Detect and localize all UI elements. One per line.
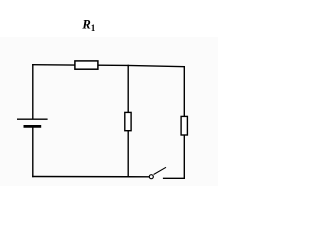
wire: middle branch, resistor down to bottom node — [127, 131, 129, 178]
wire: middle branch, top node down to resistor — [127, 65, 129, 113]
battery positive plate (long) — [17, 118, 48, 120]
battery negative plate (short thick) — [24, 125, 42, 128]
wire: left, battery down to bottom-left corner — [32, 126, 34, 177]
wire: bottom, left corner to switch pivot — [32, 176, 149, 178]
switch arm (open blade) — [154, 167, 166, 174]
resistor (right branch box) — [181, 116, 187, 135]
wire: top, middle node to top-right corner — [128, 65, 186, 66]
resistor R1 (top box) — [75, 61, 98, 69]
wire: right, top corner down to resistor — [183, 66, 185, 116]
wire: top, left lead to R1 — [32, 64, 75, 66]
wire: top, R1 to middle node — [98, 64, 129, 66]
switch pivot contact (circle) — [149, 175, 153, 179]
wire: bottom, switch throw to bottom-right corner — [163, 177, 185, 179]
svg-text:R1: R1 — [81, 17, 95, 32]
wire: left, top corner down to battery — [32, 64, 34, 119]
wire: right, resistor down to bottom-right corner — [183, 135, 185, 179]
resistor (middle branch box) — [125, 112, 131, 130]
